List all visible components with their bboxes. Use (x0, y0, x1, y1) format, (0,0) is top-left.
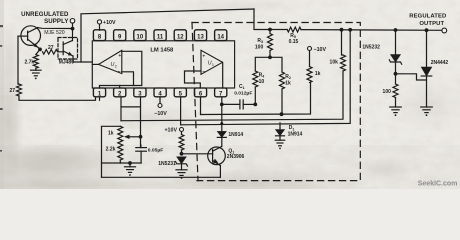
transistor MJ480 (pass, dashed outline) (58, 38, 78, 60)
wire pin 8 to +10V (99, 24, 101, 30)
svg-text:1N914: 1N914 (228, 132, 243, 138)
wire 27 bleeder to pin 1 (19, 96, 96, 100)
op-amp U1 (201, 50, 223, 75)
wire pin 2 to pin 3 (121, 106, 141, 108)
node loop bottom junction (128, 161, 132, 165)
wire Q1 collector up to 1N914 (221, 138, 223, 147)
wire base wire to Q1 (182, 153, 213, 155)
potentiometer 1k (108, 126, 123, 144)
node emitter junction (38, 48, 42, 52)
ground below pot loop (125, 163, 136, 176)
wire Q1 emitter to bottom rail (219, 166, 221, 178)
resistor 1k (right) (307, 51, 321, 83)
node rail/R3 junction (268, 28, 272, 32)
svg-text:10: 10 (259, 79, 265, 85)
svg-text:OUTPUT: OUTPUT (419, 21, 444, 27)
node wiper junction (139, 135, 143, 139)
svg-text:+: + (119, 53, 122, 58)
node rail/SCR junction (425, 28, 429, 32)
svg-text:27: 27 (9, 88, 15, 94)
node zener/base junction (180, 152, 184, 156)
wire pot loop top-left (102, 126, 121, 177)
wire pin 6 down (200, 97, 202, 114)
op-amp U2 (99, 50, 122, 75)
node gate junction (394, 72, 398, 76)
ground below 1N5231 (176, 165, 187, 179)
wire gate junction to SCR gate (396, 74, 427, 80)
label REGULATED OUTPUT (409, 14, 446, 27)
resistor 2.2k (106, 144, 123, 160)
node supply junction (71, 27, 75, 31)
wire rail step down (254, 9, 287, 30)
IC LM1458 body (92, 41, 234, 88)
wire supply terminal to junction (72, 23, 74, 29)
diode 1N914 (collector) (217, 104, 243, 138)
diode D1 1N914 (276, 123, 303, 137)
wire rail to regulated output (301, 29, 444, 32)
wire pin 3 down to wiper and capacitor (140, 97, 142, 147)
wire base down left side (17, 36, 19, 84)
svg-text:LM 1458: LM 1458 (150, 47, 174, 53)
svg-text:+: + (202, 53, 205, 58)
wire pin 1 stub (99, 97, 101, 100)
label MJE 520 (44, 30, 65, 36)
wire rail down to zener 1N5232 (395, 30, 397, 55)
wire U1 feedback loop (185, 71, 202, 88)
svg-text:1: 1 (212, 63, 214, 67)
node rail/zener junction (394, 28, 398, 32)
zener diode 1N5232 (362, 44, 401, 64)
resistor below +10V (179, 132, 184, 151)
svg-text:27: 27 (48, 45, 54, 51)
node C1 right junction (253, 103, 257, 107)
svg-text:SeekIC.com: SeekIC.com (418, 180, 458, 187)
resistor R4 10 (253, 71, 265, 87)
svg-text:2N4442: 2N4442 (431, 60, 449, 66)
svg-text:1k: 1k (108, 130, 114, 136)
wire pin 7 down to C1 (221, 97, 223, 104)
svg-text:11: 11 (157, 34, 164, 40)
resistor 2.7k (24, 49, 40, 68)
resistor 10k (330, 30, 346, 71)
svg-text:0.05μF: 0.05μF (148, 148, 164, 154)
svg-text:2.2k: 2.2k (106, 146, 116, 152)
resistor R5 0.15 (current sense) (287, 27, 301, 45)
terminal -10V (pin 4) (154, 104, 167, 118)
IC top pins 8-14 (93, 30, 226, 41)
svg-text:+10V: +10V (103, 20, 116, 26)
transistor Q1 2N3906 (208, 146, 226, 165)
svg-text:1k: 1k (315, 71, 321, 77)
svg-text:REGULATED: REGULATED (409, 14, 446, 20)
wire C1 junction up to R4 (254, 87, 256, 104)
wire pin 2 down (120, 97, 122, 120)
svg-text:100: 100 (383, 89, 392, 95)
wire MJ480 emitter to op-amp/output rail (73, 56, 92, 62)
wire pin 5 down (180, 97, 182, 125)
svg-text:+10V: +10V (164, 127, 177, 133)
node R2/W1 junction (280, 112, 284, 116)
pot wiper arrow (124, 135, 141, 139)
node rail/right-branch junction (348, 28, 352, 32)
wire 2.2k bottom to loop bottom (102, 160, 121, 163)
resistor R2 1k (280, 72, 291, 89)
terminal +10V (bottom) (164, 127, 183, 133)
wire zener to gate junction (395, 62, 397, 74)
svg-text:10: 10 (137, 34, 144, 40)
svg-text:1N5232: 1N5232 (362, 44, 380, 50)
ground below 100 (390, 98, 402, 117)
svg-text:12: 12 (177, 34, 184, 40)
ground below D1 (275, 136, 285, 150)
node pin7/C1 junction (220, 103, 224, 107)
watermark SeekIC.com (418, 180, 458, 187)
svg-text:−: − (202, 70, 205, 75)
terminal -10V (right) (308, 47, 327, 54)
resistor R3 100 (255, 30, 273, 51)
wire R3 bottom to junction (269, 51, 271, 58)
wire SCR cathode to ground (421, 76, 433, 116)
wire supply junction down to MJ480 collector (72, 29, 74, 41)
wire pin 4 stub (159, 97, 161, 103)
svg-text:SUPPLY: SUPPLY (44, 18, 68, 25)
zener diode 1N5231 (158, 157, 187, 167)
wire loop bottom to cap (120, 162, 141, 164)
terminal +10V (pin 8) (97, 20, 116, 26)
wire bottom rail (102, 176, 221, 178)
resistor 27 (left bleeder) (9, 84, 21, 96)
svg-text:100: 100 (255, 45, 264, 51)
svg-text:1N5231: 1N5231 (158, 161, 176, 167)
wire U1 output down to pin 7 (222, 62, 224, 88)
svg-text:1k: 1k (285, 81, 291, 87)
svg-text:14: 14 (217, 34, 224, 40)
wire U2 output to box edge (92, 63, 98, 65)
node R3 bottom junction (268, 55, 272, 59)
node 1N914/W3 junction (220, 122, 223, 125)
svg-text:MJE 520: MJE 520 (44, 30, 65, 36)
node rail/10k junction (340, 28, 344, 32)
capacitor C1 0.012uF (222, 84, 256, 109)
IC bottom pins 1-7 (93, 88, 226, 97)
wire output rail from op-amp to step (81, 9, 254, 62)
label UNREGULATED SUPPLY (21, 11, 69, 25)
svg-text:2.7k: 2.7k (24, 59, 34, 65)
svg-text:−10V: −10V (154, 111, 167, 117)
wire R2 bottom to W1 (281, 89, 283, 114)
resistor 100 (gate) (383, 74, 398, 98)
ink specks on left margin (0, 25, 3, 152)
wire resistor to zener junction (181, 150, 183, 154)
svg-text:−10V: −10V (314, 47, 327, 53)
wire MJE520 collector to supply junction (38, 27, 71, 30)
wire U2 feedback loop (100, 51, 142, 88)
resistor 27 (emitter to driver base) (43, 45, 64, 54)
label Q1 2N3906 (227, 148, 245, 160)
label MJ480 (59, 60, 75, 66)
dashed box (regulator module) (192, 23, 360, 181)
wire W1 pin6 to 1k bottom (201, 83, 311, 115)
svg-text:0.012μF: 0.012μF (234, 91, 252, 97)
wire W3 pin5 to right branch (181, 30, 351, 125)
wire W2 pin2 to 10k bottom (121, 71, 343, 121)
svg-text:MJ480: MJ480 (59, 60, 75, 66)
svg-text:2: 2 (115, 65, 117, 69)
ground below 2.7k (31, 68, 42, 79)
svg-text:10k: 10k (330, 60, 339, 66)
capacitor 0.05uF (136, 145, 164, 163)
SCR 2N4442 (421, 30, 448, 76)
transistor Q MJE 520 (18, 26, 41, 49)
svg-text:13: 13 (197, 34, 204, 40)
svg-text:−: − (118, 70, 121, 75)
svg-text:2N3906: 2N3906 (227, 154, 245, 160)
svg-text:0.15: 0.15 (289, 39, 299, 45)
terminal unregulated supply input (70, 19, 75, 24)
wire junction to R4 and R2 tops (255, 57, 282, 72)
svg-text:1N914: 1N914 (288, 131, 303, 137)
terminal regulated output (442, 28, 447, 33)
